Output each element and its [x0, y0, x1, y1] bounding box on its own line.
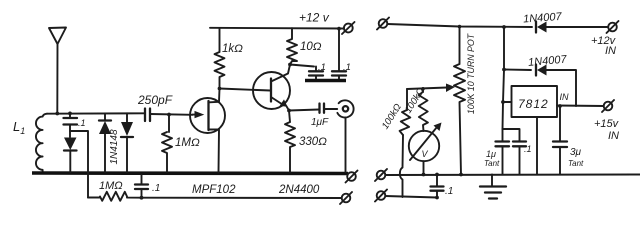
capacitor 3u tant [553, 106, 567, 175]
svg-text:1N4148: 1N4148 [109, 129, 120, 164]
terminal +12V IN [607, 21, 619, 33]
diode 1N4007 top [536, 22, 608, 33]
capacitor .1 A [309, 67, 323, 81]
transistor Q1 JFET MPF102 [190, 89, 225, 173]
svg-text:Tant: Tant [568, 159, 584, 168]
capacitor .1 out [431, 175, 444, 198]
svg-text:330Ω: 330Ω [299, 136, 327, 148]
svg-text:.1: .1 [524, 144, 532, 154]
svg-text:1MΩ: 1MΩ [175, 137, 200, 149]
wiper arrow [407, 84, 455, 93]
varactor diode [64, 138, 77, 173]
resistor 1M gate [162, 115, 172, 173]
svg-text:1μ: 1μ [486, 149, 496, 159]
resistor 10 ohm [287, 28, 297, 64]
terminal ground rail [346, 171, 358, 183]
diode 1N4148 down [121, 113, 133, 172]
svg-text:IN: IN [608, 130, 619, 142]
capacitor .1 reg [513, 142, 526, 175]
diode 1N4007 lower [504, 65, 576, 107]
svg-text:.1: .1 [343, 62, 351, 73]
capacitor 250pF [145, 109, 193, 122]
wire base [220, 89, 271, 91]
node pot top [458, 25, 462, 29]
capacitor .1 B [332, 27, 346, 80]
inductor L1 [36, 114, 47, 172]
svg-text:1kΩ: 1kΩ [222, 43, 243, 55]
resistor 100k output [400, 89, 411, 135]
wire output vertical with hump [400, 135, 403, 197]
+12V rail [210, 27, 344, 30]
svg-text:1μF: 1μF [311, 117, 329, 128]
svg-text:+12 v: +12 v [299, 11, 330, 25]
svg-text:+15v: +15v [594, 118, 620, 130]
capacitor .1 tuning [135, 175, 148, 198]
diode 1N4148 up [99, 113, 111, 172]
pin gnd bottom [536, 117, 538, 175]
svg-text:.1: .1 [78, 118, 86, 128]
svg-text:.1: .1 [318, 62, 326, 73]
svg-text:.1: .1 [152, 183, 160, 194]
terminal gnd in [375, 169, 387, 181]
resistor 1M tuning [88, 192, 142, 201]
capacitor 1u tant [496, 129, 520, 175]
antenna [49, 28, 66, 114]
node emitter junction [287, 109, 291, 113]
pin in right [557, 105, 604, 108]
ground rail [32, 171, 348, 175]
svg-text:1MΩ: 1MΩ [99, 180, 123, 192]
terminal +12V [342, 22, 355, 34]
svg-text:V: V [422, 149, 429, 159]
regulator U1 7812 [512, 86, 558, 117]
wire right ground [386, 174, 640, 177]
svg-text:10Ω: 10Ω [300, 41, 322, 53]
svg-text:Tant: Tant [484, 159, 500, 168]
wire tuning in [386, 196, 438, 198]
node gate junction [167, 113, 171, 117]
resistor 100k meter [419, 89, 428, 132]
pin out left [503, 101, 512, 103]
svg-text:MPF102: MPF102 [192, 184, 236, 196]
node bus top [502, 25, 506, 29]
transistor Q2 2N4400 [253, 65, 290, 111]
wire top rail right [388, 24, 533, 27]
potentiometer 100k 10 turn [454, 27, 465, 175]
wire varactor junction to tuning feed [70, 131, 88, 198]
svg-text:.1: .1 [445, 186, 453, 197]
wire bus vertical [503, 27, 505, 129]
resistor 1k [215, 28, 225, 89]
terminal +12V top left [377, 18, 389, 30]
svg-text:2N4400: 2N4400 [278, 184, 320, 196]
svg-text:3μ: 3μ [570, 147, 582, 158]
ground symbol [480, 175, 506, 199]
svg-text:100K 10 TURN POT: 100K 10 TURN POT [466, 33, 476, 114]
capacitor 1uF [289, 104, 337, 113]
wire tuning line [142, 197, 342, 199]
terminal +15V IN [602, 100, 614, 112]
svg-text:7812: 7812 [518, 97, 549, 111]
svg-text:IN: IN [560, 92, 570, 102]
terminal tune in [375, 190, 387, 202]
node drain/base [218, 87, 222, 91]
svg-text:250pF: 250pF [137, 93, 173, 107]
capacitor .1 (varactor series) [64, 113, 78, 137]
meter V [409, 123, 442, 175]
node antenna junction [55, 112, 59, 116]
svg-text:IN: IN [605, 45, 616, 57]
resistor 330 ohm [285, 111, 295, 173]
wire tank top [47, 112, 144, 114]
phono jack output [337, 100, 353, 172]
terminal tuning out [340, 192, 352, 204]
ground bar local [305, 79, 346, 83]
wire collector node to caps [290, 65, 314, 67]
